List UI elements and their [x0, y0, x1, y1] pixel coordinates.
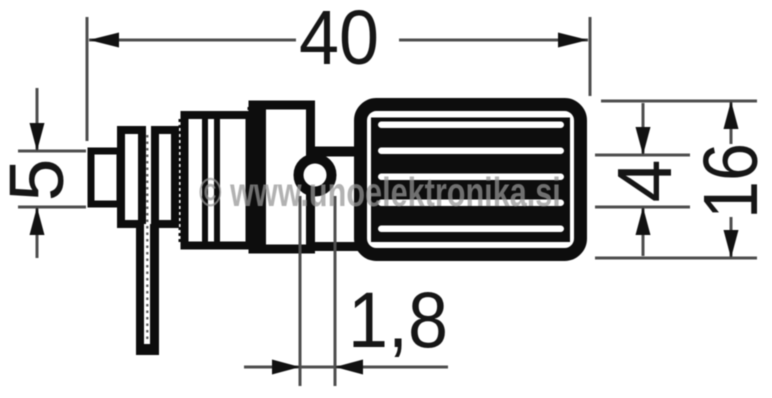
arrow 5 bottom — [30, 207, 45, 235]
pin bushing left — [91, 151, 120, 204]
dimension 16 — [595, 101, 757, 258]
dimension 40 — [87, 17, 590, 141]
arrow 16 bottom — [724, 230, 739, 258]
knob groove slit 4 — [378, 200, 564, 207]
arrow 4 top — [636, 127, 651, 155]
threaded bushing section — [181, 115, 250, 246]
solder lug tail — [136, 135, 159, 355]
knob groove field — [371, 118, 570, 243]
dimension 5 — [18, 88, 86, 258]
svg-text:40: 40 — [299, 0, 379, 81]
dimension 1,8 — [244, 196, 448, 386]
binding post drawing — [91, 105, 581, 356]
neck top edge — [311, 147, 358, 157]
knob groove slit 3 — [378, 174, 564, 181]
arrow 40 right — [558, 33, 588, 48]
cross hole circle — [299, 159, 332, 192]
arrow 16 top — [724, 101, 739, 129]
knurled knob — [361, 105, 581, 255]
arrow 40 left — [89, 33, 119, 48]
svg-text:4: 4 — [602, 160, 688, 203]
body flange — [250, 105, 311, 249]
arrow 5 top — [30, 123, 45, 151]
svg-text:1,8: 1,8 — [348, 275, 448, 364]
mounting plate 2 — [155, 130, 175, 224]
svg-text:5: 5 — [0, 159, 80, 202]
mounting plate 1 — [121, 130, 142, 224]
neck bottom edge — [311, 242, 358, 251]
arrow 4 bottom — [636, 207, 651, 235]
knob groove slit 5 — [378, 226, 564, 233]
dimension 4 — [595, 103, 690, 256]
knob groove slit 1 — [378, 122, 564, 129]
arrow 1,8 right — [335, 360, 363, 375]
arrow 1,8 left — [272, 360, 300, 375]
knob groove slit 2 — [378, 148, 564, 155]
watermark — [199, 172, 561, 213]
svg-text:16: 16 — [688, 143, 772, 219]
